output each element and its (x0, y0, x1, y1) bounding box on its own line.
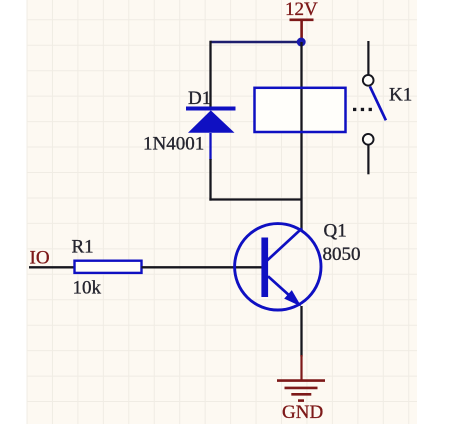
relay coil K1 box fill (255, 88, 346, 132)
svg-text:D1: D1 (188, 88, 211, 109)
relay switch blade (370, 86, 386, 120)
ground bar 4 (298, 399, 304, 402)
junction node at 12V rail (297, 38, 306, 47)
ground stem (300, 355, 302, 381)
transistor Q1 base bar (261, 238, 268, 298)
diode D1 cathode bar (186, 107, 236, 111)
wire top horizontal (node to diode branch) (211, 41, 302, 43)
ground bar 3 (291, 393, 311, 396)
transistor Q1 emitter stroke (268, 276, 290, 295)
resistor R1 body (75, 261, 142, 273)
relay contact terminal top (363, 75, 374, 86)
relay contact pin top wire (367, 41, 369, 75)
transistor Q1 body circle (235, 224, 321, 310)
wire diode branch vertical lower (209, 133, 211, 160)
ground bar 2 (285, 387, 318, 390)
wire IO to resistor (29, 266, 75, 268)
relay coil K1 box (255, 88, 346, 132)
wire relay/collector vertical (300, 42, 302, 230)
power stem wire (300, 20, 303, 42)
wire diode branch vertical upper (209, 41, 211, 108)
svg-text:1N4001: 1N4001 (143, 134, 204, 155)
ground bar 1 (277, 379, 325, 382)
svg-text:12V: 12V (285, 0, 318, 20)
svg-text:8050: 8050 (323, 244, 361, 265)
power bar VCC 12V (290, 18, 314, 21)
wire diode anode to bottom junction (209, 159, 211, 201)
svg-text:GND: GND (282, 402, 323, 423)
relay contact pin bottom wire (367, 145, 369, 174)
svg-text:IO: IO (30, 247, 50, 268)
transistor Q1 emitter arrow (284, 290, 301, 307)
wire emitter to ground (300, 306, 302, 357)
relay contact terminal bottom (363, 134, 374, 145)
svg-text:R1: R1 (72, 236, 94, 257)
svg-text:Q1: Q1 (324, 220, 347, 241)
svg-text:K1: K1 (389, 85, 412, 106)
transistor Q1 collector stroke (267, 228, 302, 260)
relay contact dashed link (353, 108, 372, 111)
diode D1 anode triangle (188, 110, 235, 132)
wire bottom horizontal (diode to collector) (209, 198, 301, 200)
wire resistor to base (142, 266, 263, 268)
svg-text:10k: 10k (73, 278, 102, 299)
